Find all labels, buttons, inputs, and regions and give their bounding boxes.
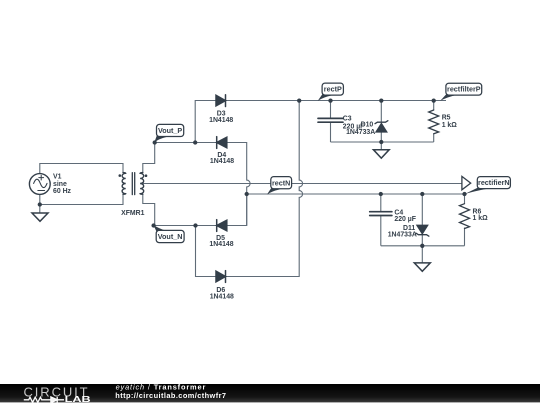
wire D5 anode right then up to rectN bbox=[227, 194, 247, 226]
flag Vout_N bbox=[153, 225, 184, 243]
footer bar bbox=[0, 384, 540, 402]
ground (V1) bbox=[32, 213, 48, 221]
node D10 top bbox=[379, 98, 383, 102]
svg-text:sine: sine bbox=[53, 181, 67, 188]
capacitor C4 bbox=[370, 212, 392, 216]
svg-text:1N4148: 1N4148 bbox=[209, 241, 233, 248]
svg-text:220 µF: 220 µF bbox=[394, 216, 416, 223]
diode D6 bbox=[216, 271, 226, 282]
diode D3 bbox=[216, 95, 226, 106]
node D11 bottom bbox=[420, 244, 424, 248]
svg-text:60 Hz: 60 Hz bbox=[53, 188, 72, 195]
flag rectifierN bbox=[464, 177, 510, 195]
flag rectfilterP bbox=[440, 83, 481, 101]
transformer core bbox=[132, 173, 134, 195]
svg-text:rectN: rectN bbox=[272, 178, 290, 187]
wire bottom of C3/D10/R5 bbox=[331, 141, 434, 143]
wire R5 stubs bbox=[433, 101, 435, 143]
svg-text:XFMR1: XFMR1 bbox=[121, 210, 145, 217]
node R5 top bbox=[432, 98, 436, 102]
svg-text:LAB: LAB bbox=[65, 394, 91, 404]
wire C4 stubs bbox=[380, 194, 382, 246]
wire V1 top to XFMR primary top bbox=[40, 164, 123, 174]
logo resistor-diode glyph bbox=[24, 397, 64, 403]
wire D4 anode right then down to rectN (hop over center tap) bbox=[227, 143, 250, 226]
svg-text:1N4148: 1N4148 bbox=[210, 158, 234, 165]
ground (D11) bbox=[414, 263, 430, 271]
transformer XFMR1 secondary winding bbox=[140, 173, 144, 195]
output terminal triangle rectifierN bbox=[462, 176, 471, 189]
svg-text:D10: D10 bbox=[361, 121, 374, 128]
svg-text:1 kΩ: 1 kΩ bbox=[442, 122, 458, 129]
wire Vout_P row to D4 bbox=[155, 142, 217, 144]
wire XFMR secondary bottom to Vout_N node bbox=[143, 194, 155, 225]
voltage source V1 bbox=[29, 174, 50, 195]
transformer XFMR1 primary winding bbox=[122, 173, 126, 195]
svg-text:1 kΩ: 1 kΩ bbox=[473, 215, 489, 222]
flag Vout_P bbox=[154, 124, 183, 142]
node D6 branch bbox=[193, 223, 197, 227]
wire bottom of C4/D11/R6 bbox=[381, 245, 465, 247]
node D11 top bbox=[420, 192, 424, 196]
ground (D10) bbox=[373, 150, 389, 158]
node D3 branch bbox=[193, 140, 197, 144]
wire XFMR secondary top to Vout_P node bbox=[143, 143, 155, 173]
resistor R5 bbox=[429, 110, 439, 134]
resistor R6 bbox=[460, 204, 470, 229]
transformer polarity dots bbox=[119, 174, 122, 177]
node V1- junction bbox=[38, 202, 42, 206]
wire node Vout_P up to D3 anode bbox=[195, 101, 216, 143]
wire Vout_N row to D5 bbox=[154, 225, 217, 227]
zener diode D10 bbox=[376, 124, 386, 132]
svg-text:rectP: rectP bbox=[324, 85, 342, 94]
capacitor C3 bbox=[318, 118, 343, 122]
node rectN junction D4/D5 bbox=[245, 192, 249, 196]
wire D11 stubs bbox=[421, 194, 423, 263]
node C3 top bbox=[328, 98, 332, 102]
svg-text:R5: R5 bbox=[442, 114, 451, 121]
svg-text:rectfilterP: rectfilterP bbox=[447, 85, 481, 94]
node Vout_N bbox=[151, 223, 155, 227]
svg-text:C3: C3 bbox=[343, 116, 352, 123]
node C4 top bbox=[379, 192, 383, 196]
wire rectN rail bbox=[247, 193, 465, 195]
svg-text:rectifierN: rectifierN bbox=[478, 178, 510, 187]
svg-text:1N4733A: 1N4733A bbox=[388, 232, 417, 239]
node Vout_P bbox=[153, 140, 157, 144]
svg-text:Vout_P: Vout_P bbox=[158, 126, 182, 135]
wire C3 stubs bbox=[330, 101, 332, 143]
svg-text:1N4148: 1N4148 bbox=[209, 117, 233, 124]
svg-text:1N4733A: 1N4733A bbox=[346, 129, 375, 136]
wire D10 stubs bbox=[380, 101, 382, 150]
svg-text:1N4148: 1N4148 bbox=[210, 294, 234, 301]
node D10 bottom bbox=[379, 140, 383, 144]
wire D6 cathode up to top rail (hops over both rails) bbox=[226, 101, 303, 277]
wire D3 cathode to top rail rectP bbox=[226, 100, 447, 102]
svg-text:http://circuitlab.com/cthwfr7: http://circuitlab.com/cthwfr7 bbox=[115, 391, 226, 400]
flag rectN bbox=[267, 177, 292, 195]
wire node Vout_N down to D6 anode bbox=[196, 226, 217, 277]
diode D4 bbox=[217, 137, 227, 148]
wire XFMR center tap to output triangle bbox=[143, 183, 462, 185]
zener diode D11 bbox=[417, 225, 427, 233]
wire R6 stubs bbox=[464, 194, 466, 246]
flag rectP bbox=[318, 83, 344, 101]
node R6 top bbox=[462, 192, 466, 196]
wire V1 bottom to XFMR primary bottom bbox=[40, 194, 123, 213]
diode D5 bbox=[217, 220, 227, 231]
node D6 top rail bbox=[297, 98, 301, 102]
svg-text:V1: V1 bbox=[53, 174, 62, 181]
svg-text:Vout_N: Vout_N bbox=[158, 232, 183, 241]
